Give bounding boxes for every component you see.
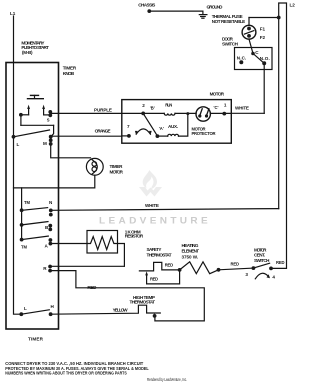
- svg-text:GROUND: GROUND: [207, 4, 224, 9]
- svg-text:2: 2: [142, 103, 145, 108]
- svg-text:(M-B): (M-B): [22, 50, 33, 55]
- svg-text:RED: RED: [231, 262, 240, 267]
- svg-text:L1: L1: [10, 11, 16, 16]
- svg-text:RED: RED: [87, 285, 97, 290]
- svg-text:YELLOW: YELLOW: [113, 308, 129, 313]
- svg-text:RED: RED: [165, 262, 174, 267]
- svg-text:F1: F1: [260, 26, 266, 31]
- svg-text:N.C.: N.C.: [237, 56, 247, 61]
- svg-text:F2: F2: [260, 35, 266, 40]
- svg-text:CHASSIS: CHASSIS: [138, 2, 155, 7]
- svg-text:KNOB: KNOB: [63, 71, 75, 76]
- svg-text:NOT RESETABLE: NOT RESETABLE: [212, 19, 246, 24]
- svg-text:1: 1: [224, 102, 227, 107]
- svg-text:ORANGE: ORANGE: [95, 129, 111, 134]
- svg-text:RUN: RUN: [165, 103, 172, 108]
- svg-text:4: 4: [272, 275, 275, 280]
- svg-text:'A': 'A': [159, 126, 164, 131]
- svg-text:TIMER: TIMER: [28, 337, 44, 342]
- svg-text:PROTECTOR: PROTECTOR: [192, 131, 216, 136]
- svg-text:SAFETY: SAFETY: [147, 247, 162, 252]
- svg-text:SWITCH: SWITCH: [254, 258, 270, 263]
- svg-text:L: L: [17, 142, 20, 147]
- svg-text:Rendered by LeadVenture, Inc.: Rendered by LeadVenture, Inc.: [147, 377, 187, 382]
- svg-text:TIMER: TIMER: [63, 66, 77, 71]
- svg-text:THERMOSTAT: THERMOSTAT: [147, 252, 172, 257]
- svg-text:TIMER: TIMER: [110, 164, 124, 169]
- svg-text:TM: TM: [21, 245, 28, 250]
- svg-text:3750 W.: 3750 W.: [182, 254, 199, 259]
- svg-text:'B': 'B': [150, 105, 155, 110]
- svg-text:WHITE: WHITE: [145, 203, 159, 208]
- svg-text:ELEMENT: ELEMENT: [182, 248, 200, 253]
- svg-text:L: L: [24, 306, 27, 311]
- svg-text:M: M: [43, 141, 47, 146]
- svg-text:TM: TM: [24, 200, 31, 205]
- svg-text:7: 7: [127, 124, 130, 129]
- svg-text:PURPLE: PURPLE: [94, 108, 112, 113]
- svg-text:THERMOSTAT: THERMOSTAT: [130, 300, 156, 305]
- svg-text:S: S: [47, 118, 50, 123]
- svg-text:WHITE: WHITE: [235, 106, 249, 111]
- svg-text:N.O.: N.O.: [260, 56, 270, 61]
- svg-text:3: 3: [245, 272, 248, 277]
- svg-text:L2: L2: [290, 2, 296, 7]
- svg-text:NUMBERS WHEN WRITING ABOUT THI: NUMBERS WHEN WRITING ABOUT THIS DRYER OR…: [5, 371, 126, 376]
- svg-text:HEATING: HEATING: [182, 243, 199, 248]
- svg-text:CENT.: CENT.: [254, 252, 265, 257]
- svg-text:LEADVENTURE: LEADVENTURE: [99, 216, 211, 226]
- svg-text:RED: RED: [276, 260, 285, 265]
- svg-text:MOTOR: MOTOR: [110, 170, 124, 175]
- svg-text:SWITCH: SWITCH: [222, 41, 239, 46]
- svg-text:AUX.: AUX.: [168, 124, 178, 129]
- svg-text:MOTOR: MOTOR: [210, 91, 225, 96]
- svg-text:RED: RED: [150, 277, 158, 282]
- svg-text:'C': 'C': [214, 105, 219, 110]
- svg-text:RESISTOR: RESISTOR: [125, 234, 144, 239]
